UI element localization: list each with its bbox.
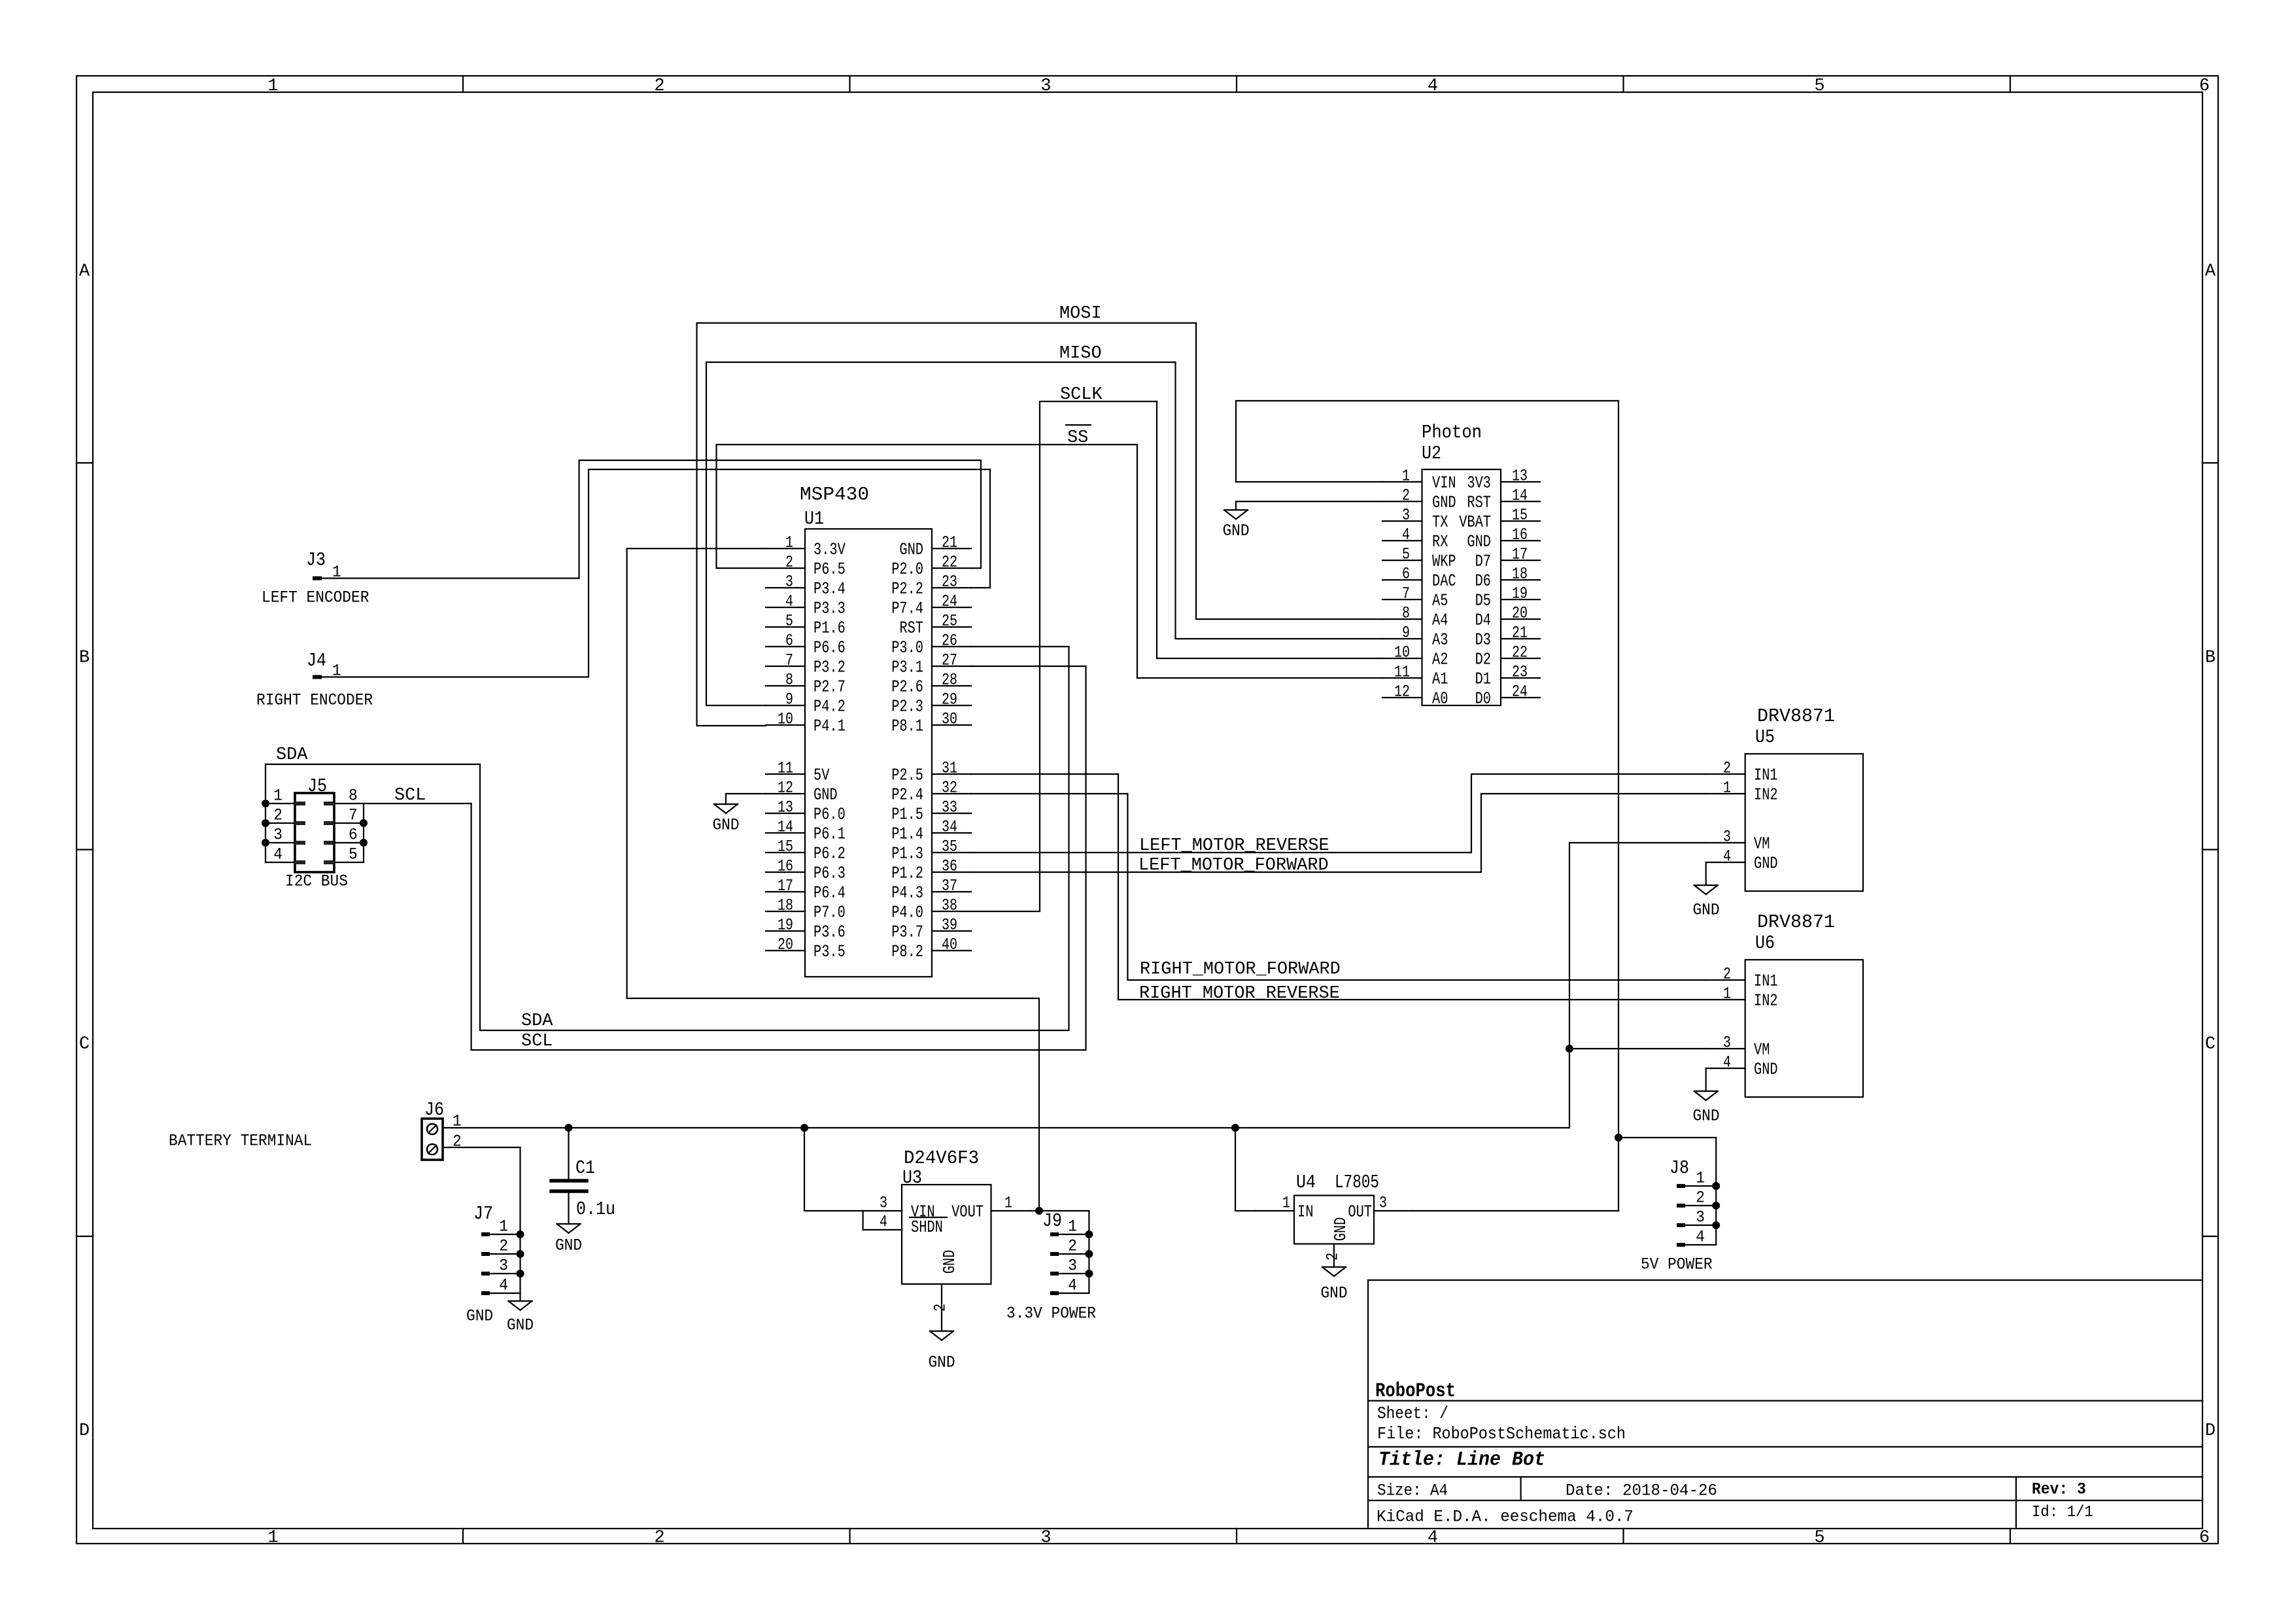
- svg-text:J6: J6: [424, 1099, 444, 1121]
- svg-text:MSP430: MSP430: [800, 484, 869, 505]
- svg-text:D: D: [79, 1421, 90, 1441]
- svg-text:19: 19: [1512, 584, 1528, 603]
- svg-text:A1: A1: [1432, 669, 1448, 688]
- svg-text:Photon: Photon: [1422, 422, 1482, 443]
- svg-text:2: 2: [1696, 1189, 1705, 1208]
- svg-text:P3.7: P3.7: [891, 922, 923, 941]
- svg-text:D3: D3: [1475, 630, 1491, 649]
- svg-text:P6.3: P6.3: [813, 864, 846, 883]
- svg-text:TX: TX: [1432, 513, 1448, 532]
- svg-text:22: 22: [1512, 643, 1528, 662]
- svg-text:3: 3: [1402, 506, 1410, 525]
- svg-text:1: 1: [1282, 1194, 1290, 1213]
- svg-text:2: 2: [931, 1304, 950, 1311]
- svg-text:P1.3: P1.3: [891, 844, 923, 863]
- svg-text:10: 10: [1394, 643, 1410, 662]
- svg-text:8: 8: [1402, 604, 1410, 623]
- svg-text:24: 24: [942, 592, 957, 611]
- svg-text:6: 6: [1402, 565, 1410, 584]
- svg-text:3.3V POWER: 3.3V POWER: [1006, 1304, 1096, 1323]
- svg-text:7: 7: [1402, 584, 1410, 603]
- svg-text:L7805: L7805: [1335, 1172, 1379, 1193]
- svg-text:4: 4: [499, 1276, 508, 1295]
- svg-text:24: 24: [1512, 683, 1528, 702]
- svg-text:P7.4: P7.4: [891, 599, 923, 618]
- svg-text:VOUT: VOUT: [951, 1202, 984, 1221]
- svg-text:D24V6F3: D24V6F3: [904, 1147, 979, 1169]
- svg-text:38: 38: [942, 896, 957, 915]
- svg-text:MISO: MISO: [1059, 344, 1102, 364]
- svg-text:P2.6: P2.6: [891, 677, 923, 696]
- svg-text:3: 3: [1068, 1257, 1077, 1276]
- svg-text:1: 1: [267, 76, 278, 96]
- svg-text:SCL: SCL: [394, 786, 426, 805]
- svg-text:Date: 2018-04-26: Date: 2018-04-26: [1566, 1481, 1717, 1500]
- svg-text:14: 14: [1512, 486, 1528, 505]
- svg-text:29: 29: [942, 690, 957, 709]
- svg-text:P2.3: P2.3: [891, 697, 923, 716]
- svg-text:23: 23: [942, 573, 957, 592]
- svg-text:SHDN: SHDN: [911, 1218, 943, 1237]
- svg-text:GND: GND: [1467, 532, 1491, 551]
- svg-text:I2C BUS: I2C BUS: [285, 872, 348, 891]
- svg-text:39: 39: [942, 916, 957, 935]
- svg-text:P6.4: P6.4: [813, 883, 846, 902]
- svg-text:40: 40: [942, 936, 957, 955]
- svg-text:28: 28: [942, 671, 957, 690]
- svg-text:D0: D0: [1475, 689, 1491, 708]
- svg-text:P6.2: P6.2: [813, 844, 846, 863]
- svg-text:21: 21: [1512, 624, 1528, 643]
- svg-text:GND: GND: [466, 1307, 493, 1326]
- svg-text:2: 2: [1723, 759, 1731, 778]
- svg-text:1: 1: [332, 662, 341, 681]
- svg-text:36: 36: [942, 857, 957, 876]
- svg-text:A4: A4: [1432, 611, 1448, 630]
- svg-text:IN2: IN2: [1754, 785, 1778, 804]
- svg-text:5V: 5V: [813, 766, 830, 785]
- svg-text:15: 15: [1512, 506, 1528, 525]
- svg-text:3: 3: [1723, 1034, 1731, 1053]
- svg-text:D2: D2: [1475, 650, 1491, 669]
- svg-text:Size: A4: Size: A4: [1377, 1481, 1448, 1500]
- svg-text:34: 34: [942, 818, 957, 837]
- svg-text:D1: D1: [1475, 669, 1491, 688]
- svg-text:Sheet: /: Sheet: /: [1377, 1404, 1448, 1423]
- svg-text:4: 4: [1723, 847, 1731, 866]
- svg-text:2: 2: [1324, 1253, 1343, 1260]
- svg-text:GND: GND: [507, 1316, 534, 1335]
- svg-text:P6.1: P6.1: [813, 824, 846, 843]
- svg-text:P3.3: P3.3: [813, 599, 846, 618]
- svg-text:D4: D4: [1475, 611, 1491, 630]
- svg-text:20: 20: [778, 936, 793, 955]
- svg-text:16: 16: [778, 857, 793, 876]
- svg-text:WKP: WKP: [1432, 552, 1456, 571]
- svg-text:2: 2: [1723, 965, 1731, 984]
- svg-text:DRV8871: DRV8871: [1757, 911, 1835, 933]
- svg-text:16: 16: [1512, 526, 1528, 545]
- svg-text:13: 13: [778, 798, 793, 817]
- svg-text:P2.5: P2.5: [891, 766, 923, 785]
- svg-text:6: 6: [2199, 1528, 2210, 1548]
- svg-text:C: C: [79, 1034, 90, 1054]
- svg-text:3: 3: [273, 826, 282, 845]
- svg-text:19: 19: [778, 916, 793, 935]
- svg-text:11: 11: [778, 759, 793, 778]
- svg-text:31: 31: [942, 759, 957, 778]
- svg-text:35: 35: [942, 837, 957, 856]
- svg-text:GND: GND: [1331, 1217, 1350, 1242]
- svg-text:RIGHT_MOTOR_REVERSE: RIGHT_MOTOR_REVERSE: [1139, 984, 1340, 1004]
- svg-text:U5: U5: [1755, 726, 1775, 748]
- svg-text:P8.1: P8.1: [891, 717, 923, 736]
- svg-text:1: 1: [1723, 985, 1731, 1004]
- svg-text:P6.6: P6.6: [813, 638, 846, 657]
- svg-text:18: 18: [1512, 565, 1528, 584]
- svg-text:26: 26: [942, 632, 957, 651]
- svg-text:9: 9: [1402, 624, 1410, 643]
- svg-text:SDA: SDA: [521, 1011, 553, 1031]
- svg-text:GND: GND: [555, 1236, 582, 1255]
- svg-text:4: 4: [785, 592, 793, 611]
- svg-text:P7.0: P7.0: [813, 903, 846, 922]
- svg-text:P4.1: P4.1: [813, 717, 846, 736]
- svg-text:5: 5: [785, 612, 793, 631]
- svg-text:P2.2: P2.2: [891, 579, 923, 598]
- svg-text:3: 3: [1696, 1208, 1705, 1227]
- svg-text:GND: GND: [1754, 1060, 1778, 1079]
- svg-text:GND: GND: [1692, 901, 1719, 920]
- svg-text:23: 23: [1512, 663, 1528, 682]
- svg-text:17: 17: [778, 877, 793, 896]
- svg-text:BATTERY TERMINAL: BATTERY TERMINAL: [169, 1132, 312, 1151]
- svg-text:Title: Line Bot: Title: Line Bot: [1378, 1448, 1545, 1471]
- svg-text:KiCad E.D.A. eeschema 4.0.7: KiCad E.D.A. eeschema 4.0.7: [1377, 1508, 1634, 1527]
- svg-text:1: 1: [499, 1217, 508, 1236]
- svg-text:2: 2: [499, 1237, 508, 1256]
- svg-text:P3.5: P3.5: [813, 942, 846, 961]
- svg-text:GND: GND: [1432, 493, 1456, 512]
- svg-text:D6: D6: [1475, 571, 1491, 590]
- svg-text:A3: A3: [1432, 630, 1448, 649]
- svg-text:8: 8: [785, 671, 793, 690]
- svg-text:2: 2: [654, 76, 664, 96]
- svg-text:1: 1: [1696, 1169, 1705, 1188]
- svg-text:RIGHT ENCODER: RIGHT ENCODER: [256, 691, 373, 710]
- svg-text:2: 2: [1402, 486, 1410, 505]
- svg-text:14: 14: [778, 818, 793, 837]
- svg-text:Rev: 3: Rev: 3: [2032, 1480, 2086, 1499]
- svg-text:4: 4: [1723, 1053, 1731, 1072]
- svg-text:P1.4: P1.4: [891, 824, 923, 843]
- svg-text:3: 3: [1379, 1194, 1387, 1213]
- svg-text:IN: IN: [1297, 1202, 1313, 1221]
- svg-text:3: 3: [499, 1257, 508, 1276]
- svg-text:3V3: 3V3: [1467, 473, 1491, 492]
- svg-text:IN1: IN1: [1754, 972, 1778, 990]
- svg-text:GND: GND: [940, 1250, 959, 1274]
- svg-text:U2: U2: [1422, 443, 1441, 464]
- svg-text:2: 2: [453, 1132, 462, 1151]
- svg-text:1: 1: [267, 1528, 278, 1548]
- svg-text:6: 6: [349, 826, 358, 845]
- svg-text:D7: D7: [1475, 552, 1491, 571]
- svg-text:OUT: OUT: [1348, 1202, 1372, 1221]
- svg-text:GND: GND: [813, 785, 838, 804]
- svg-text:SDA: SDA: [276, 745, 308, 765]
- svg-text:1: 1: [785, 533, 793, 552]
- svg-text:20: 20: [1512, 604, 1528, 623]
- svg-text:5V POWER: 5V POWER: [1641, 1255, 1713, 1274]
- svg-text:30: 30: [942, 710, 957, 729]
- svg-text:13: 13: [1512, 467, 1528, 486]
- svg-text:GND: GND: [1320, 1284, 1347, 1303]
- svg-text:4: 4: [1402, 526, 1410, 545]
- svg-text:1: 1: [453, 1112, 462, 1131]
- svg-text:0.1u: 0.1u: [576, 1198, 615, 1220]
- svg-text:J4: J4: [307, 650, 326, 671]
- svg-text:LEFT_MOTOR_REVERSE: LEFT_MOTOR_REVERSE: [1139, 836, 1329, 856]
- svg-text:P3.4: P3.4: [813, 579, 846, 598]
- svg-text:5: 5: [349, 845, 358, 864]
- svg-text:VIN: VIN: [1432, 473, 1456, 492]
- svg-text:1: 1: [1004, 1194, 1012, 1213]
- svg-text:P3.1: P3.1: [891, 658, 923, 677]
- svg-text:5: 5: [1402, 545, 1410, 564]
- svg-text:C1: C1: [575, 1157, 595, 1179]
- svg-text:P1.2: P1.2: [891, 864, 923, 883]
- svg-text:3: 3: [785, 573, 793, 592]
- svg-text:P6.5: P6.5: [813, 560, 846, 579]
- svg-text:15: 15: [778, 837, 793, 856]
- svg-text:GND: GND: [1222, 522, 1249, 541]
- svg-text:File: RoboPostSchematic.sch: File: RoboPostSchematic.sch: [1377, 1424, 1626, 1444]
- svg-text:P4.2: P4.2: [813, 697, 846, 716]
- svg-text:J5: J5: [307, 775, 327, 797]
- svg-text:10: 10: [778, 710, 793, 729]
- svg-text:U4: U4: [1296, 1172, 1316, 1193]
- svg-text:1: 1: [1068, 1217, 1077, 1236]
- svg-text:IN2: IN2: [1754, 991, 1778, 1010]
- svg-text:1: 1: [1723, 779, 1731, 798]
- svg-text:9: 9: [785, 690, 793, 709]
- svg-text:P6.0: P6.0: [813, 805, 846, 824]
- svg-text:P2.7: P2.7: [813, 677, 846, 696]
- svg-text:11: 11: [1394, 663, 1410, 682]
- svg-text:LEFT ENCODER: LEFT ENCODER: [262, 588, 369, 607]
- svg-text:P1.6: P1.6: [813, 618, 846, 637]
- svg-text:SCL: SCL: [521, 1032, 553, 1051]
- svg-text:P3.2: P3.2: [813, 658, 846, 677]
- svg-text:17: 17: [1512, 545, 1528, 564]
- svg-text:25: 25: [942, 612, 957, 631]
- svg-text:VM: VM: [1754, 1040, 1770, 1059]
- svg-text:DRV8871: DRV8871: [1757, 705, 1835, 727]
- svg-text:4: 4: [880, 1213, 887, 1232]
- svg-text:GND: GND: [1692, 1107, 1719, 1126]
- svg-text:A2: A2: [1432, 650, 1448, 669]
- svg-text:RoboPost: RoboPost: [1375, 1379, 1456, 1402]
- svg-text:2: 2: [785, 553, 793, 572]
- svg-text:1: 1: [1402, 467, 1410, 486]
- svg-text:P2.0: P2.0: [891, 560, 923, 579]
- svg-text:1: 1: [332, 563, 341, 582]
- svg-text:P4.3: P4.3: [891, 883, 923, 902]
- svg-text:A: A: [2205, 262, 2216, 281]
- svg-text:2: 2: [273, 806, 282, 825]
- svg-text:DAC: DAC: [1432, 571, 1456, 590]
- svg-text:2: 2: [654, 1528, 664, 1548]
- svg-text:27: 27: [942, 651, 957, 670]
- svg-text:D5: D5: [1475, 591, 1491, 610]
- svg-text:8: 8: [349, 787, 358, 805]
- svg-text:Id: 1/1: Id: 1/1: [2032, 1504, 2093, 1521]
- svg-text:B: B: [79, 648, 90, 668]
- svg-text:6: 6: [785, 632, 793, 651]
- svg-text:P3.6: P3.6: [813, 922, 846, 941]
- svg-text:RST: RST: [899, 618, 923, 637]
- svg-text:3: 3: [1040, 1528, 1051, 1548]
- svg-text:A5: A5: [1432, 591, 1448, 610]
- svg-text:D: D: [2205, 1421, 2216, 1441]
- svg-text:GND: GND: [712, 816, 739, 835]
- svg-text:LEFT_MOTOR_FORWARD: LEFT_MOTOR_FORWARD: [1138, 856, 1329, 875]
- svg-text:GND: GND: [899, 540, 923, 559]
- svg-text:U6: U6: [1755, 932, 1775, 954]
- svg-text:P3.0: P3.0: [891, 638, 923, 657]
- svg-text:B: B: [2205, 648, 2216, 668]
- svg-text:U1: U1: [804, 508, 824, 530]
- svg-text:J9: J9: [1042, 1210, 1062, 1232]
- svg-text:4: 4: [1068, 1276, 1077, 1295]
- svg-text:GND: GND: [928, 1353, 955, 1372]
- svg-text:SCLK: SCLK: [1060, 385, 1103, 405]
- svg-text:IN1: IN1: [1754, 766, 1778, 785]
- svg-text:J7: J7: [473, 1203, 493, 1225]
- svg-text:5: 5: [1814, 76, 1824, 96]
- svg-text:3: 3: [1040, 76, 1051, 96]
- svg-text:4: 4: [273, 845, 282, 864]
- svg-text:RIGHT_MOTOR_FORWARD: RIGHT_MOTOR_FORWARD: [1140, 960, 1341, 979]
- svg-text:3: 3: [880, 1194, 887, 1213]
- svg-text:1: 1: [273, 787, 282, 805]
- svg-text:3: 3: [1723, 828, 1731, 847]
- svg-text:P4.0: P4.0: [891, 903, 923, 922]
- svg-text:7: 7: [349, 806, 358, 825]
- svg-text:RST: RST: [1467, 493, 1491, 512]
- svg-text:A0: A0: [1432, 689, 1448, 708]
- svg-text:7: 7: [785, 651, 793, 670]
- svg-text:SS: SS: [1067, 428, 1088, 448]
- svg-text:4: 4: [1696, 1228, 1705, 1247]
- svg-text:P1.5: P1.5: [891, 805, 923, 824]
- svg-text:21: 21: [942, 533, 957, 552]
- svg-text:C: C: [2205, 1034, 2216, 1054]
- svg-text:P2.4: P2.4: [891, 785, 923, 804]
- svg-text:A: A: [79, 262, 90, 281]
- svg-text:RX: RX: [1432, 532, 1448, 551]
- svg-text:37: 37: [942, 877, 957, 896]
- svg-text:U3: U3: [902, 1167, 922, 1189]
- svg-text:4: 4: [1428, 1528, 1438, 1548]
- svg-text:2: 2: [1068, 1237, 1077, 1256]
- svg-text:J8: J8: [1669, 1157, 1689, 1179]
- svg-text:VM: VM: [1754, 834, 1770, 853]
- svg-text:12: 12: [1394, 683, 1410, 702]
- svg-text:VBAT: VBAT: [1459, 513, 1491, 532]
- svg-text:MOSI: MOSI: [1059, 304, 1102, 324]
- svg-text:22: 22: [942, 553, 957, 572]
- svg-text:P8.2: P8.2: [891, 942, 923, 961]
- svg-text:GND: GND: [1754, 854, 1778, 873]
- svg-text:33: 33: [942, 798, 957, 817]
- svg-text:J3: J3: [306, 549, 326, 571]
- svg-text:3.3V: 3.3V: [813, 540, 846, 559]
- svg-text:12: 12: [778, 779, 793, 798]
- svg-text:32: 32: [942, 779, 957, 798]
- svg-text:6: 6: [2199, 76, 2210, 96]
- svg-text:18: 18: [778, 896, 793, 915]
- svg-text:5: 5: [1814, 1528, 1824, 1548]
- svg-text:4: 4: [1428, 76, 1438, 96]
